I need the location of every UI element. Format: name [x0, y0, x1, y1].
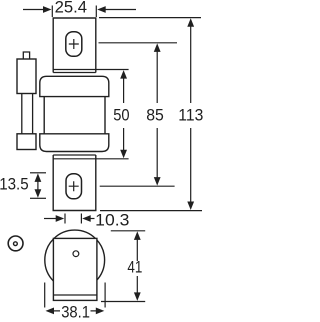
- dim 13.5 top tick: [30, 172, 46, 174]
- dim 10.3 right tick: [80, 214, 82, 224]
- svg-text:41: 41: [127, 258, 142, 276]
- dim 10.3 left tick: [64, 214, 66, 224]
- front view: bottom screw slot: [66, 174, 82, 199]
- front view: top terminal tab: [53, 18, 96, 73]
- svg-text:10.3: 10.3: [95, 211, 129, 229]
- svg-text:50: 50: [113, 107, 129, 125]
- svg-text:113: 113: [178, 107, 203, 125]
- side view: top terminal block: [17, 59, 36, 94]
- dim 113 top extension line: [99, 17, 201, 19]
- front view: bottom terminal tab: [53, 155, 96, 211]
- side view: narrow body: [22, 94, 33, 134]
- dim 41 bottom extension line: [101, 301, 145, 303]
- dim 25.4 left arrow: [23, 9, 46, 11]
- bottom view: small hole: [73, 251, 79, 257]
- front view: top screw slot: [66, 32, 82, 57]
- svg-text:13.5: 13.5: [0, 176, 29, 194]
- front view: barrel: [44, 97, 105, 134]
- dim 25.4 right arrow: [102, 9, 136, 11]
- front view: bottom cap: [40, 134, 109, 152]
- dim 113 bottom extension line: [100, 210, 202, 212]
- dim 38.1 left tick: [44, 283, 46, 308]
- bottom view: terminal square: [53, 238, 97, 300]
- front view: bottom rim lines: [53, 155, 128, 159]
- dim 25.4 left tick: [51, 6, 53, 18]
- side view: bottom block: [17, 134, 36, 150]
- svg-text:38.1: 38.1: [61, 304, 90, 322]
- dim 10.3 left arrow: [44, 218, 59, 220]
- indicator symbol: [8, 236, 23, 251]
- bottom view: body circle: [45, 230, 105, 290]
- front view: top cap: [40, 76, 109, 96]
- dim 13.5 double arrow: [37, 178, 39, 193]
- front view: bottom screw cross: [69, 181, 79, 191]
- dim 10.3 right arrow: [87, 218, 95, 220]
- dim 85 bottom extension line: [100, 185, 175, 187]
- dim 41 top extension line: [111, 230, 145, 232]
- dim 13.5 bottom tick: [30, 197, 46, 199]
- bottom view: square inner line: [53, 294, 97, 296]
- dim 50 line: [123, 76, 125, 153]
- svg-text:25.4: 25.4: [55, 0, 88, 17]
- dim 25.4 right tick: [95, 6, 97, 18]
- dim 85 line: [156, 49, 158, 180]
- front view: top rim lines: [53, 70, 128, 73]
- dim 113 line: [190, 24, 192, 204]
- dim 41 line: [136, 237, 138, 296]
- front view: top screw cross: [69, 39, 79, 49]
- dim 38.1 right tick: [104, 283, 106, 308]
- side view: top nub: [23, 52, 29, 59]
- svg-text:85: 85: [146, 107, 164, 125]
- dim 85 top extension line: [99, 42, 178, 44]
- dim 38.1 line with arrows: [51, 310, 99, 312]
